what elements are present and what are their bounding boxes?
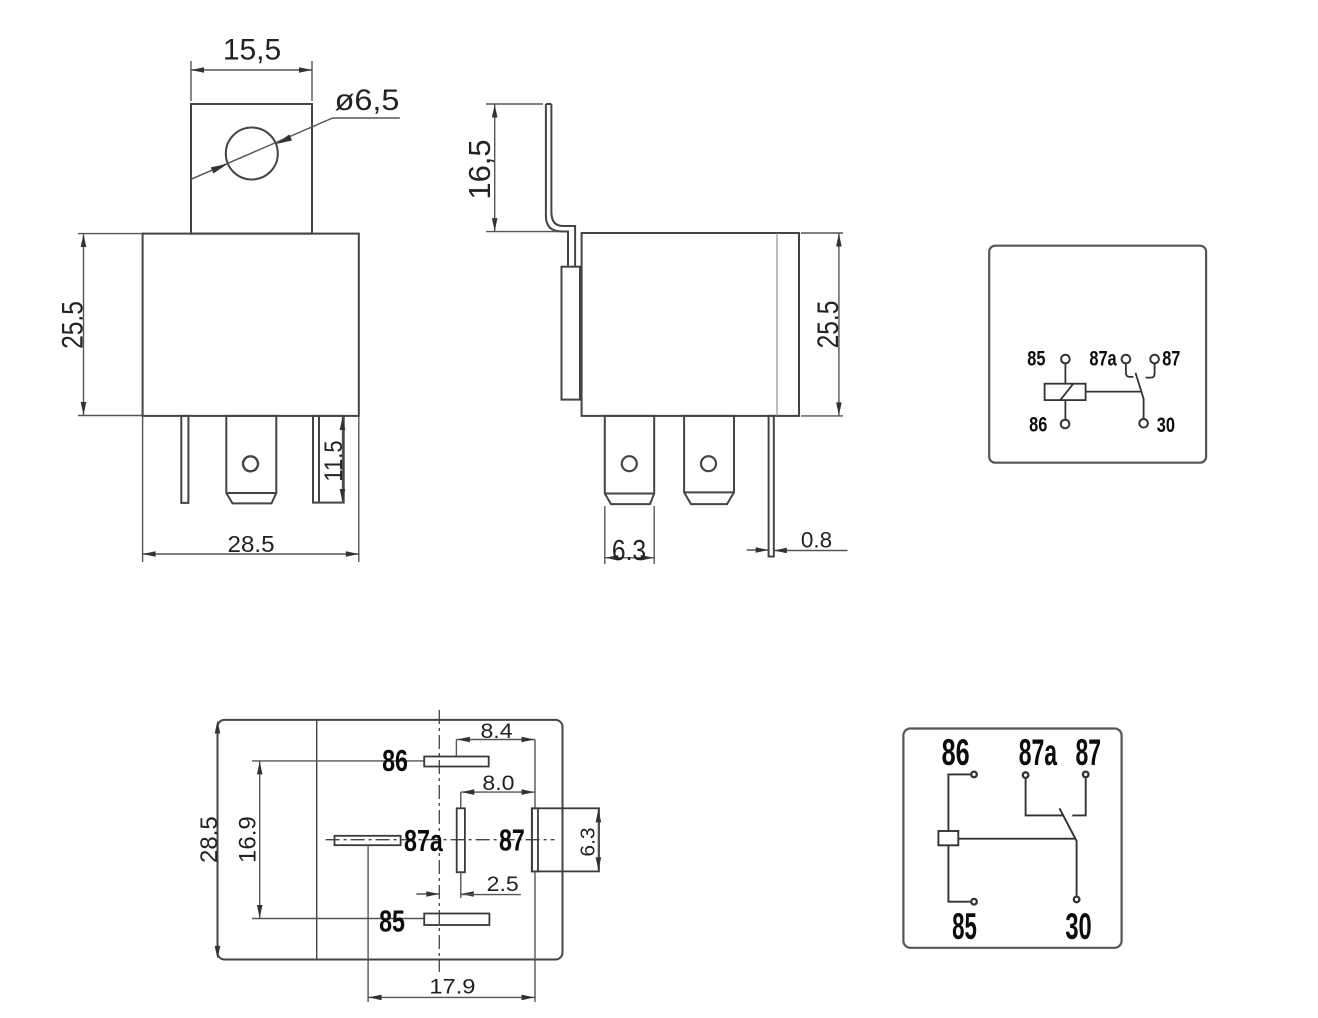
terminal 86 (schematic 2) — [971, 772, 977, 778]
wire coil to 86 — [1064, 400, 1066, 420]
contact hook 87 — [1146, 363, 1155, 377]
hole diameter leader line — [191, 118, 400, 179]
pin 30 center blade (front) — [226, 416, 276, 504]
wire coil to 85 — [948, 845, 970, 901]
terminal 85 (schematic 2) — [971, 899, 977, 905]
dimension 8.0 extension left (pin 87 centerline) — [460, 792, 462, 808]
svg-text:87: 87 — [499, 822, 525, 857]
svg-text:85: 85 — [1027, 346, 1045, 369]
svg-text:87a: 87a — [1019, 731, 1058, 773]
svg-text:16,5: 16,5 — [462, 139, 497, 199]
svg-text:25.5: 25.5 — [55, 301, 89, 349]
body inner edge line (side view) — [776, 233, 778, 416]
schematic 2 border box — [903, 729, 1121, 948]
pin 87a blade (side view) — [684, 416, 734, 504]
dimension 15,5 — [191, 69, 312, 71]
dimension 25.5 (side) — [838, 233, 840, 416]
dimension 28.5 extension lines (front) — [142, 416, 144, 562]
svg-text:30: 30 — [1065, 906, 1091, 948]
svg-text:87: 87 — [1075, 731, 1101, 773]
dimension 28.5 (bottom view) arrows on left edge — [215, 721, 221, 734]
pin 85 blade (side view) — [605, 416, 654, 504]
svg-text:85: 85 — [379, 903, 405, 938]
svg-text:8.0: 8.0 — [482, 771, 514, 795]
pin 87a hole — [701, 456, 716, 471]
svg-text:86: 86 — [1029, 412, 1047, 435]
dimension 28.5 (front) — [143, 553, 359, 555]
pin 85 hole — [622, 456, 637, 471]
svg-text:6.3: 6.3 — [612, 534, 646, 566]
svg-text:87a: 87a — [404, 823, 443, 858]
svg-text:16.9: 16.9 — [234, 816, 261, 863]
pin 86 thin blade (front) — [181, 416, 188, 503]
dimension 15,5 extension lines — [190, 61, 192, 101]
svg-text:15,5: 15,5 — [223, 34, 281, 67]
tab hole circle — [226, 128, 278, 180]
svg-text:25.5: 25.5 — [811, 301, 845, 349]
dimension 8.4 extension left (pin 86 centerline) — [455, 740, 457, 757]
wire 86 to coil — [948, 774, 970, 831]
terminal 30 (schematic 2) — [1074, 897, 1080, 903]
dimension 25.5 extension lines (side) — [801, 232, 843, 234]
dimension 16.9 — [259, 761, 261, 919]
pin 87 blade (front) — [313, 416, 344, 503]
svg-text:87: 87 — [1162, 346, 1180, 369]
terminal 87a (schematic 2) — [1023, 772, 1029, 778]
bracket lower plate (side view) — [562, 267, 581, 400]
dimension 8.4 extension right (pin 30 centerline) — [534, 740, 536, 809]
coil (schematic 1) — [1045, 384, 1086, 400]
armature (schematic 2) — [1060, 808, 1077, 895]
svg-text:30: 30 — [1157, 413, 1175, 436]
pin 30 hole — [243, 456, 258, 471]
wire 85 to coil — [1064, 363, 1066, 383]
schematic 1 border box — [989, 246, 1206, 463]
pin 87a slot (bottom view) — [335, 836, 401, 845]
side bracket tab (bottom view) — [532, 808, 599, 871]
dimension 2.5 leader right — [461, 891, 474, 897]
dimension 2.5 extension (pin 87 centerline) — [460, 872, 462, 898]
dimension 6.3 extension lines — [604, 506, 606, 564]
terminal 86 — [1061, 420, 1070, 429]
svg-text:17.9: 17.9 — [429, 975, 475, 998]
pin 86 slot (bottom view) — [424, 757, 489, 767]
dimension 25.5 extension lines (front) — [78, 233, 143, 235]
contact hook 87a — [1126, 363, 1134, 377]
terminal 87a — [1122, 355, 1131, 364]
armature 30 — [1136, 373, 1144, 419]
wire coil to armature — [1086, 391, 1142, 393]
dimension 8.4 — [456, 739, 535, 741]
terminal 87 — [1150, 355, 1159, 364]
relay body (side view) — [582, 233, 799, 416]
dimension 17.9 extension left (pin 87a centerline) — [367, 845, 369, 1002]
svg-text:86: 86 — [942, 731, 970, 773]
dimension 0.8 leader right — [774, 550, 848, 552]
svg-text:28.5: 28.5 — [196, 816, 223, 863]
svg-text:87a: 87a — [1089, 346, 1117, 369]
terminal 30 — [1139, 419, 1148, 428]
dimension 16,5 — [494, 104, 496, 232]
terminal 85 — [1061, 355, 1070, 364]
dimension 6.3 (side) — [605, 557, 654, 559]
dimension 16,5 extension lines — [486, 103, 543, 105]
dimension 11.5 — [342, 417, 344, 503]
relay base outline (bottom view) — [218, 720, 563, 960]
dimension 16.9 extension lines — [252, 760, 424, 762]
dimension 17.9 — [368, 996, 535, 998]
dimension 8.0 — [461, 791, 535, 793]
svg-text:2.5: 2.5 — [487, 872, 519, 896]
svg-text:85: 85 — [952, 906, 977, 947]
dimension 25.5 (front) — [83, 234, 85, 416]
relay body (front view) — [143, 234, 359, 416]
terminal 87 (schematic 2) — [1083, 772, 1089, 778]
svg-text:11.5: 11.5 — [320, 440, 348, 481]
wire 87 drop — [1072, 778, 1085, 815]
dimension 2.5 leader left — [416, 893, 439, 895]
pin 30 slot (bottom view) — [532, 808, 538, 871]
horizontal centerline — [326, 839, 555, 841]
svg-text:8.4: 8.4 — [480, 719, 512, 743]
dimension 6.3 (bottom view, tab height) — [597, 809, 599, 871]
vertical centerline — [438, 710, 440, 972]
pin 85 slot (bottom view) — [424, 914, 489, 926]
svg-text:6.3: 6.3 — [577, 827, 599, 856]
svg-text:0.8: 0.8 — [801, 528, 832, 553]
coil (schematic 2) — [938, 831, 958, 845]
pin 87 slot (bottom view) — [457, 808, 465, 872]
wire 87a drop — [1026, 779, 1064, 816]
mounting bracket strip (side view) — [546, 103, 552, 105]
svg-text:86: 86 — [382, 743, 408, 778]
pin 30 thin blade (side view) — [769, 416, 774, 557]
base inner edge line — [316, 720, 318, 960]
wire coil to armature pivot — [958, 838, 1075, 840]
dimension 17.9 extension right (pin 30 centerline) — [534, 872, 536, 1002]
dimension 0.8 leader left — [747, 549, 769, 551]
mounting tab (front view) — [191, 104, 312, 234]
svg-text:28.5: 28.5 — [228, 532, 275, 557]
svg-text:ø6,5: ø6,5 — [335, 83, 400, 117]
